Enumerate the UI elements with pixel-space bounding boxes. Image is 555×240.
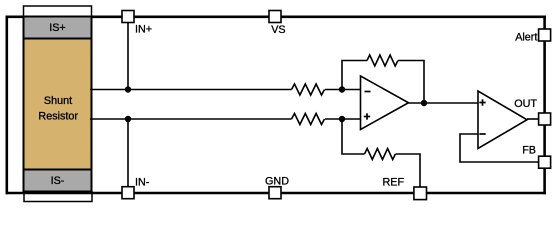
shunt bottom cap xyxy=(24,192,92,202)
junction dot feedback tap xyxy=(339,86,345,92)
resistor shunt body xyxy=(24,39,92,170)
svg-text:Shunt: Shunt xyxy=(44,95,72,107)
resistor R1 xyxy=(292,84,325,95)
wire upper sense row xyxy=(90,89,292,91)
resistor R3 feedback xyxy=(367,55,398,66)
wire IN- tap xyxy=(127,119,129,187)
resistor R4 reference xyxy=(365,149,396,160)
wire feedback to output node xyxy=(398,61,424,104)
wire R1 to op-amp xyxy=(325,89,361,91)
wire R2 to op-amp xyxy=(325,118,361,120)
resistor R2 xyxy=(292,114,325,125)
svg-text:GND: GND xyxy=(265,176,289,188)
pin FB xyxy=(522,145,550,169)
svg-text:Resistor: Resistor xyxy=(38,110,78,122)
wire IN+ tap xyxy=(127,23,129,90)
svg-text:IN-: IN- xyxy=(135,177,150,189)
wire top border xyxy=(6,15,547,18)
shunt top cap xyxy=(24,6,92,18)
pin GND xyxy=(265,176,289,199)
pin Alert xyxy=(515,29,550,43)
pin VS xyxy=(269,11,286,37)
op-amp U2 xyxy=(478,91,527,149)
wire bottom border xyxy=(6,192,547,195)
svg-text:OUT: OUT xyxy=(514,98,537,110)
junction dot U1 output xyxy=(421,100,427,106)
wire R4 to REF pin xyxy=(396,154,421,187)
wire U1 output to U2 xyxy=(409,102,479,104)
wire left shunt supply xyxy=(6,16,9,195)
terminal IS+ band xyxy=(24,17,92,39)
svg-text:REF: REF xyxy=(382,176,404,188)
svg-text:IS-: IS- xyxy=(51,175,65,187)
terminal IS- band xyxy=(24,170,92,192)
wire lower sense row xyxy=(90,118,292,120)
svg-text:IS+: IS+ xyxy=(49,22,66,34)
svg-text:IN+: IN+ xyxy=(135,23,152,35)
wire U2 inverting loop to FB xyxy=(460,134,539,162)
svg-text:VS: VS xyxy=(271,24,285,36)
svg-text:FB: FB xyxy=(522,145,536,157)
junction dot IN+ xyxy=(125,86,131,92)
pin IN- xyxy=(122,177,150,199)
op-amp U1 xyxy=(361,76,409,130)
pin IN+ xyxy=(122,11,152,36)
junction dot IN- xyxy=(125,116,131,122)
svg-text:Alert: Alert xyxy=(515,31,537,43)
wire U2 output to OUT pin xyxy=(527,118,539,120)
wire right border xyxy=(543,16,546,195)
pin REF xyxy=(382,176,426,199)
wire REF loop xyxy=(342,119,365,154)
pin OUT xyxy=(514,98,550,125)
junction dot reference tap xyxy=(339,116,345,122)
wire feedback loop xyxy=(342,61,367,90)
